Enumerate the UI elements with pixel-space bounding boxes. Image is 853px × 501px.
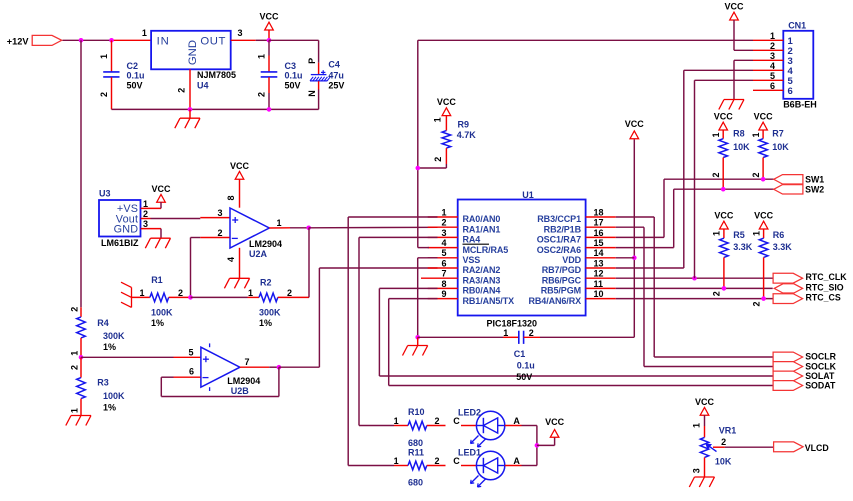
svg-text:P: P (307, 58, 317, 64)
resistor R3 (80, 357, 82, 377)
wire R1-R2 (191, 296, 248, 298)
capacitor C2 (111, 40, 113, 71)
led LED1 (476, 451, 504, 479)
ground below R3 (71, 415, 91, 417)
svg-text:680: 680 (408, 438, 423, 448)
svg-text:6: 6 (189, 367, 194, 377)
svg-text:16: 16 (594, 228, 604, 238)
pin 3 U1 stub (428, 236, 458, 238)
wire RB5 to RTC_SIO (616, 287, 773, 289)
svg-text:R9: R9 (458, 119, 470, 129)
svg-text:IN: IN (157, 36, 170, 48)
svg-text:0.1u: 0.1u (517, 361, 535, 371)
svg-text:3: 3 (143, 219, 148, 229)
svg-text:2: 2 (752, 301, 762, 306)
node junction R6/RTC_CS (761, 296, 766, 301)
svg-text:VCC: VCC (754, 112, 774, 122)
svg-text:10K: 10K (733, 142, 750, 152)
port RTC_CS (773, 294, 803, 304)
pin 3 CN1 stub (753, 59, 783, 61)
svg-text:NJM7805: NJM7805 (197, 70, 236, 80)
resistor R2 (248, 296, 260, 298)
svg-text:50V: 50V (516, 372, 532, 382)
svg-text:VCC: VCC (714, 112, 734, 122)
pin 8 U1 stub (428, 287, 458, 289)
svg-text:SW2: SW2 (805, 184, 824, 194)
svg-text:4: 4 (770, 61, 775, 71)
svg-text:1: 1 (712, 231, 722, 236)
svg-text:8: 8 (441, 279, 446, 289)
svg-text:50V: 50V (127, 80, 143, 90)
svg-text:10: 10 (594, 289, 604, 299)
svg-text:A: A (513, 416, 520, 426)
svg-text:17: 17 (594, 218, 604, 228)
wire VSS to C1 (418, 336, 503, 338)
ground left of R1 (131, 287, 133, 307)
capacitor C1 (518, 331, 520, 344)
svg-text:2: 2 (217, 228, 222, 238)
pin 10 U1 stub (586, 298, 616, 300)
node junction VSS (415, 335, 420, 340)
svg-text:1: 1 (394, 416, 399, 426)
port SW1 (774, 175, 803, 184)
pin 4 U1 stub (428, 247, 458, 249)
wire PSU bottom rail (112, 108, 319, 110)
svg-text:2: 2 (178, 288, 183, 298)
wire RB4 to RTC_CS (616, 298, 773, 300)
svg-text:B6B-EH: B6B-EH (783, 99, 817, 109)
wire VCC to CN1 pin2 (733, 20, 735, 50)
svg-text:LM2904: LM2904 (249, 239, 282, 249)
svg-text:2: 2 (287, 288, 292, 298)
node junction U2B out (277, 365, 282, 370)
node junction +12V/C2 (109, 38, 114, 43)
ground below U4 (189, 109, 191, 118)
wire MCLR bus vertical (417, 40, 419, 247)
svg-text:1: 1 (143, 199, 148, 209)
wire U2B out to U1 RA2 (279, 366, 320, 368)
svg-text:SOLAT: SOLAT (805, 371, 835, 381)
svg-text:2: 2 (434, 416, 439, 426)
svg-text:VCC: VCC (724, 2, 744, 12)
svg-text:U1: U1 (522, 190, 534, 200)
svg-text:VCC: VCC (259, 12, 279, 22)
svg-text:2: 2 (69, 307, 79, 312)
wire VCC to C4 (269, 39, 319, 41)
svg-text:5: 5 (770, 71, 775, 81)
svg-text:47u: 47u (328, 71, 344, 81)
svg-text:1: 1 (277, 218, 282, 228)
svg-text:R8: R8 (733, 128, 745, 138)
svg-text:1: 1 (433, 117, 443, 122)
svg-text:3: 3 (770, 51, 775, 61)
svg-text:RB0/AN4: RB0/AN4 (463, 286, 501, 296)
svg-text:RB4/AN6/RX: RB4/AN6/RX (528, 296, 581, 306)
pin 11 U1 stub (586, 287, 616, 289)
pin 13 U1 stub (586, 267, 616, 269)
svg-text:6: 6 (441, 258, 446, 268)
svg-text:2: 2 (770, 41, 775, 51)
svg-text:OSC1/RA7: OSC1/RA7 (537, 235, 581, 245)
svg-text:RB6/PGC: RB6/PGC (542, 275, 582, 285)
pin 18 U1 stub (586, 216, 616, 218)
wire U1 MCLR (418, 247, 429, 249)
resistor R4 (80, 307, 82, 317)
wire C1 to VDD (524, 336, 540, 338)
wire R2 to U2A out (308, 228, 310, 298)
port VLCD (774, 442, 804, 452)
wire anode rail (536, 426, 538, 466)
port RTC_CLK (773, 273, 803, 283)
node junction RB6/CN1 (692, 276, 697, 281)
port SODAT (773, 381, 803, 391)
pin 14 U1 stub (586, 257, 616, 259)
svg-text:1: 1 (99, 54, 109, 59)
svg-text:7: 7 (441, 269, 446, 279)
svg-text:RB5/PGM: RB5/PGM (541, 286, 581, 296)
node junction VDD (632, 255, 637, 260)
svg-text:1: 1 (711, 132, 721, 137)
svg-text:R6: R6 (773, 230, 785, 240)
svg-text:RA1/AN1: RA1/AN1 (463, 224, 501, 234)
pin 17 U1 stub (586, 226, 616, 228)
port SOLAT (773, 371, 803, 381)
svg-text:GND: GND (187, 40, 199, 65)
svg-text:VCC: VCC (714, 211, 734, 221)
wire anode to VCC (537, 444, 555, 446)
svg-text:15: 15 (594, 238, 604, 248)
svg-text:1%: 1% (103, 403, 116, 413)
svg-text:2: 2 (711, 172, 721, 177)
node junction R1/R2 (188, 295, 193, 300)
svg-text:SODAT: SODAT (805, 381, 836, 391)
svg-text:N: N (307, 90, 317, 97)
pin 5 U1 stub (428, 257, 458, 259)
port SOCLK (773, 362, 803, 372)
svg-text:14: 14 (594, 248, 604, 258)
svg-text:25V: 25V (328, 80, 344, 90)
svg-text:2: 2 (177, 88, 187, 93)
pin 16 U1 stub (586, 236, 616, 238)
svg-text:100K: 100K (103, 391, 125, 401)
svg-text:RTC_CLK: RTC_CLK (806, 272, 848, 282)
svg-text:1: 1 (142, 28, 147, 38)
svg-text:RA2/AN2: RA2/AN2 (463, 265, 501, 275)
wire CN1 pin5 drop (694, 80, 696, 278)
svg-text:3.3K: 3.3K (733, 242, 753, 252)
wire U1 RA4 to R10 (359, 236, 438, 238)
wire U3 pin1 to VCC (141, 207, 161, 209)
svg-text:2: 2 (751, 172, 761, 177)
svg-text:2: 2 (712, 291, 722, 296)
pin 12 U1 stub (586, 277, 616, 279)
wire U1 RB1 to SODAT (389, 298, 438, 300)
svg-text:3: 3 (692, 468, 702, 473)
wire R10 to LED2 (461, 425, 476, 427)
svg-text:1: 1 (248, 288, 253, 298)
svg-text:VDD: VDD (562, 255, 581, 265)
capacitor C3 (268, 40, 270, 55)
wire U2B feedback (278, 367, 280, 396)
wire U4 OUT to VCC junction (231, 39, 256, 41)
svg-text:OSC2/RA6: OSC2/RA6 (537, 245, 581, 255)
svg-text:C1: C1 (514, 349, 526, 359)
pin 15 U1 stub (586, 247, 616, 249)
wire CN1 pin3 to ground (734, 59, 753, 61)
svg-text:RTC_CS: RTC_CS (806, 293, 841, 303)
svg-text:12: 12 (594, 269, 604, 279)
svg-text:+12V: +12V (7, 36, 30, 46)
port SW2 (774, 185, 803, 194)
pin 1 CN1 stub (753, 39, 783, 41)
wire RB6 to RTC_CLK (616, 277, 773, 279)
svg-text:SOCLK: SOCLK (805, 361, 836, 371)
svg-text:5: 5 (441, 248, 446, 258)
wire RB7 to CN1 pin4 (616, 267, 684, 269)
node junction +12V/divider (79, 38, 84, 43)
wire divider to U2B pin5 (81, 356, 174, 358)
svg-text:1: 1 (770, 31, 775, 41)
wire U2A pin8 to VCC (239, 179, 241, 208)
led LED2 (476, 411, 504, 439)
wire U2A pin4 to ground (239, 248, 241, 278)
svg-text:1: 1 (751, 231, 761, 236)
pin 7 U1 stub (421, 277, 458, 279)
ground below CN1 (724, 99, 744, 101)
svg-text:2: 2 (256, 92, 266, 97)
wire U3 GND to ground (141, 228, 161, 230)
op-amp U2B (201, 347, 240, 387)
svg-text:3: 3 (217, 208, 222, 218)
svg-text:4: 4 (441, 238, 446, 248)
ground below U2A (230, 277, 250, 279)
svg-text:7: 7 (245, 357, 250, 367)
svg-text:VCC: VCC (230, 161, 250, 171)
svg-text:C3: C3 (285, 61, 297, 71)
svg-text:CN1: CN1 (788, 21, 806, 31)
svg-text:OUT: OUT (200, 36, 226, 48)
ground below U3 (151, 237, 171, 239)
svg-text:R4: R4 (97, 318, 109, 328)
svg-text:1%: 1% (151, 318, 164, 328)
node junction R8/SW2 (721, 187, 726, 192)
svg-text:RB2/P1B: RB2/P1B (544, 224, 582, 234)
svg-text:3: 3 (237, 28, 242, 38)
wire MCLR bus top rail (418, 39, 753, 41)
wire U2A feedback to pin2 (190, 238, 192, 298)
pin 1 U1 stub (428, 216, 458, 218)
svg-text:RA0/AN0: RA0/AN0 (463, 214, 501, 224)
pin 6 U1 stub (428, 267, 458, 269)
svg-text:4: 4 (226, 257, 236, 262)
node +12V input port (32, 35, 62, 45)
svg-text:1: 1 (692, 423, 702, 428)
resistor R10 (394, 425, 408, 427)
svg-text:1: 1 (256, 54, 266, 59)
svg-text:50V: 50V (285, 80, 301, 90)
svg-text:U4: U4 (197, 81, 209, 91)
wire +12V rail down to R4 (80, 40, 82, 307)
svg-text:R2: R2 (260, 277, 272, 287)
connector CN1 box (783, 31, 813, 99)
wire +12V to U4 IN (63, 39, 113, 41)
wire U2B output (240, 366, 269, 368)
wire RB3 to SOCLR (616, 216, 654, 218)
node junction R4/R3 (79, 355, 84, 360)
svg-text:6: 6 (788, 86, 793, 97)
node junction R9/MCLR (416, 166, 421, 171)
wire U1 RA0 to R11 (348, 216, 437, 218)
svg-text:1: 1 (394, 456, 399, 466)
svg-text:1: 1 (69, 408, 79, 413)
svg-text:1: 1 (751, 132, 761, 137)
svg-text:2: 2 (721, 437, 726, 447)
svg-text:VCC: VCC (545, 417, 565, 427)
svg-text:VR1: VR1 (719, 426, 737, 436)
svg-text:VCC: VCC (151, 184, 171, 194)
svg-text:MCLR/RA5: MCLR/RA5 (463, 245, 509, 255)
svg-text:SW1: SW1 (805, 175, 824, 185)
node junction R5/RTC_SIO (722, 286, 727, 291)
svg-text:1: 1 (503, 328, 508, 338)
svg-text:U2B: U2B (231, 386, 250, 396)
ground at VSS (417, 337, 419, 345)
pin 2 CN1 stub (753, 49, 783, 51)
resistor R11 (394, 465, 408, 467)
node junction GND rail (188, 107, 193, 112)
port RTC_SIO (774, 284, 802, 293)
svg-text:18: 18 (594, 207, 604, 217)
potentiometer VR1 (704, 415, 706, 426)
mcu U1 box (458, 200, 586, 316)
svg-text:R11: R11 (408, 447, 424, 457)
wire OSC1 to SW1 (616, 236, 664, 238)
svg-text:1%: 1% (259, 318, 272, 328)
svg-text:0.1u: 0.1u (285, 71, 303, 81)
svg-text:300K: 300K (103, 331, 125, 341)
svg-text:2: 2 (143, 209, 148, 219)
svg-text:U3: U3 (99, 189, 111, 199)
svg-text:SOCLR: SOCLR (805, 352, 836, 362)
wire U2A out to U1 RA1 (309, 226, 438, 229)
ground below VR1 (695, 476, 715, 478)
svg-text:RA4: RA4 (463, 235, 481, 245)
svg-text:VCC: VCC (695, 397, 715, 407)
wire U2A output (269, 227, 290, 229)
svg-text:VCC: VCC (754, 211, 774, 221)
wire OSC2 to SW2 (616, 247, 674, 249)
node junction VCC/C3 (267, 38, 272, 43)
svg-text:8: 8 (226, 195, 236, 200)
pin 9 U1 stub (428, 298, 458, 300)
svg-text:4.7K: 4.7K (457, 130, 477, 140)
wire U3 Vout to U2A (141, 218, 151, 220)
svg-text:300K: 300K (259, 308, 281, 318)
svg-text:A: A (513, 456, 520, 466)
svg-text:RB3/CCP1: RB3/CCP1 (537, 214, 581, 224)
wire VDD pin (616, 257, 635, 259)
wire R11 to LED1 (461, 465, 476, 467)
pin 4 CN1 stub (753, 69, 783, 71)
wire VR1 wiper to VLCD (725, 446, 774, 448)
wire LED2 anode (505, 425, 522, 427)
svg-text:2: 2 (441, 218, 446, 228)
pin 2 U1 stub (428, 226, 458, 228)
wire U4 GND pin (189, 69, 191, 109)
svg-text:13: 13 (594, 258, 604, 268)
port SOCLR (773, 352, 803, 362)
svg-text:R3: R3 (97, 377, 109, 387)
regulator U4 box (151, 31, 231, 70)
svg-text:R10: R10 (408, 407, 425, 417)
wire U1 VSS down (418, 257, 438, 259)
node junction U2A out (306, 226, 311, 231)
svg-text:100K: 100K (151, 308, 173, 318)
svg-text:5: 5 (188, 348, 193, 358)
svg-text:GND: GND (114, 223, 139, 235)
svg-text:RB1/AN5/TX: RB1/AN5/TX (463, 296, 515, 306)
svg-text:R7: R7 (772, 128, 784, 138)
svg-text:680: 680 (408, 478, 423, 488)
sensor U3 box (99, 200, 141, 237)
svg-text:10K: 10K (772, 142, 789, 152)
svg-text:9: 9 (441, 289, 446, 299)
svg-text:6: 6 (770, 81, 775, 91)
svg-text:LM61BIZ: LM61BIZ (101, 238, 139, 248)
svg-text:1%: 1% (103, 342, 116, 352)
svg-text:LED1: LED1 (458, 448, 481, 458)
wire RB2 to SOCLK (616, 226, 644, 228)
op-amp U2A (230, 208, 269, 248)
svg-text:VCC: VCC (625, 119, 645, 129)
resistor R1 (132, 296, 150, 298)
svg-text:C4: C4 (328, 60, 340, 70)
svg-text:RTC_SIO: RTC_SIO (806, 282, 844, 292)
pin 6 CN1 stub (753, 89, 783, 91)
svg-text:11: 11 (594, 279, 604, 289)
svg-text:LED2: LED2 (458, 408, 481, 418)
svg-text:LM2904: LM2904 (227, 376, 260, 386)
svg-text:1: 1 (441, 207, 446, 217)
svg-text:VSS: VSS (463, 255, 481, 265)
pin 5 CN1 stub (753, 79, 783, 81)
svg-text:2: 2 (99, 92, 109, 97)
wire U1 RB0 to SOLAT (379, 287, 437, 289)
wire R9 to MCLR bus (445, 164, 447, 168)
overbar MCLR (463, 243, 490, 245)
svg-text:U2A: U2A (249, 249, 268, 259)
svg-text:1: 1 (69, 351, 79, 356)
node junction C3 bottom (267, 107, 272, 112)
svg-text:VCC: VCC (437, 97, 457, 107)
wire LED1 anode (505, 465, 522, 467)
node junction R7/SW1 (761, 177, 766, 182)
node junction anode/VCC (535, 443, 540, 448)
svg-text:PIC18F1320: PIC18F1320 (487, 318, 538, 328)
svg-text:2: 2 (69, 365, 79, 370)
svg-text:3: 3 (441, 228, 446, 238)
svg-text:VLCD: VLCD (805, 443, 829, 453)
svg-text:3.3K: 3.3K (773, 242, 793, 252)
svg-text:R1: R1 (151, 275, 163, 285)
svg-text:0.1u: 0.1u (127, 71, 145, 81)
wiper VR1 (713, 446, 725, 448)
svg-text:R5: R5 (733, 230, 745, 240)
svg-text:1: 1 (139, 288, 144, 298)
svg-text:RA3/AN3: RA3/AN3 (463, 275, 501, 285)
svg-text:C2: C2 (127, 61, 139, 71)
svg-text:2: 2 (433, 157, 443, 162)
